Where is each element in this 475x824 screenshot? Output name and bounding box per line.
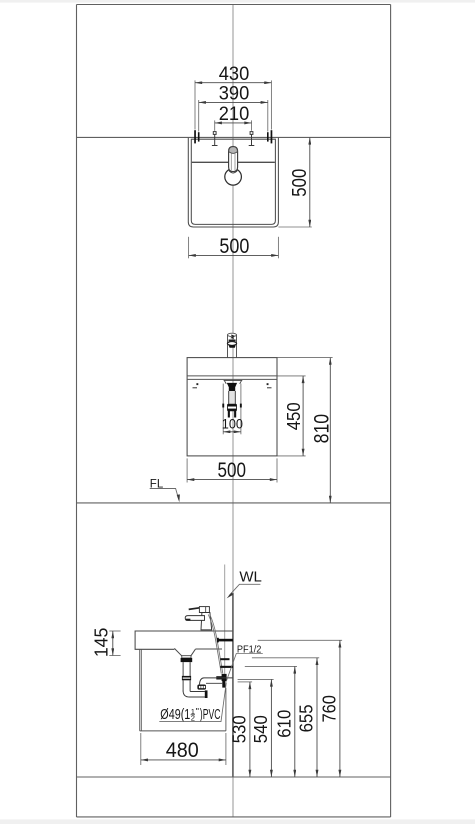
PF1/2 label underline leader [226, 654, 263, 682]
basin rim inner outline (plan) [191, 139, 275, 224]
supply pipe centerline (side) [224, 565, 226, 676]
faucet body (side) [201, 613, 212, 630]
dim 760 dimension line (side) [339, 640, 341, 777]
dim 530 extension line (side) [238, 681, 253, 683]
dim 810 extension line top (front) [278, 357, 333, 359]
faucet head top ellipse (front) [228, 333, 237, 336]
dim 500 extension lines (front bottom) [186, 458, 188, 482]
supply tick bar at 610 (side) [220, 666, 233, 668]
mounting bolt right (plan) [249, 132, 255, 146]
svg-text:WL: WL [239, 569, 262, 586]
drain flange collar (side) [182, 656, 191, 658]
faucet spout (side) [185, 616, 204, 621]
faucet head block (side) [199, 607, 209, 613]
supply tick bar at 655 (side) [220, 658, 229, 660]
bolt mark right dash (front) [267, 387, 272, 389]
svg-text:430: 430 [219, 64, 250, 85]
page bottom edge band [0, 819, 475, 824]
wall bracket tick left inner 390 (plan) [198, 132, 200, 141]
dim 610 extension line (side) [245, 665, 297, 667]
faucet head dark band (front) [229, 340, 236, 342]
dim 210 dimension line [215, 122, 252, 124]
svg-text:655: 655 [297, 704, 317, 732]
basin rim line 2 (front) [187, 378, 277, 380]
cabinet right edge (side) [225, 688, 227, 731]
page top edge band [0, 0, 475, 3]
svg-text:": " [196, 707, 199, 718]
angle valve body (side) [222, 674, 227, 681]
svg-text:530: 530 [230, 715, 250, 743]
frame bottom border [77, 816, 391, 818]
dim 100 extension lines (front) [222, 384, 224, 435]
dim 540 extension line (side) [238, 678, 274, 680]
outlet wall escutcheon (side) [222, 679, 225, 688]
trap elbow and lower horizontal pipe (side) [183, 691, 205, 697]
drain funnel black (front) [227, 383, 237, 387]
dim 500 dimension line (front bottom) [187, 479, 277, 481]
dim 810 dimension line (front) [329, 358, 331, 503]
FL leader arrowhead [177, 494, 180, 502]
wall line dark segment (side view) [232, 593, 234, 777]
svg-text:480: 480 [166, 739, 199, 762]
bowl underside neck (side) [174, 648, 195, 655]
pvc label underline leader [159, 683, 226, 722]
dim 100 dimension line (front) [223, 431, 241, 433]
svg-text:500: 500 [219, 235, 249, 258]
frame right border [390, 5, 392, 818]
dim 655 extension line (side) [252, 657, 319, 659]
faucet aerator (side) [186, 619, 191, 621]
dim 655 dimension line (side) [316, 658, 318, 777]
dim 145 dimension line (side) [112, 631, 114, 656]
svg-text:810: 810 [310, 414, 333, 444]
bolt mark left dot (front) [196, 383, 198, 385]
ribbed compression coupling (side) [197, 685, 206, 690]
wall bracket tick left outer 430 (plan) [194, 130, 196, 143]
dim 145 extension lines (side) [109, 630, 120, 632]
dim 100 tick marks on extensions (front) [222, 404, 224, 408]
countertop slab (side) [135, 631, 233, 649]
svg-text:500: 500 [218, 459, 247, 482]
bolt mark left dash (front) [193, 387, 198, 389]
trap tailpipe upper (side) [182, 662, 184, 676]
dim 430 extension lines [194, 80, 196, 129]
dim 390 extension lines [198, 100, 200, 132]
trap outlet end cap (side) [205, 690, 208, 698]
faucet spout tip arc over drain (plan) [229, 171, 237, 173]
faucet riser lines (front) [227, 334, 229, 357]
dim 480 extension lines (side) [140, 733, 142, 765]
drain flange black ring (side) [181, 658, 193, 662]
svg-text:540: 540 [251, 715, 271, 743]
svg-text:450: 450 [284, 402, 304, 430]
drain coupling nut (front) [228, 404, 237, 411]
dim 430 dimension line [195, 82, 271, 84]
flexible supply hose (side) [208, 615, 221, 674]
drain hole circle (plan) [225, 169, 242, 186]
svg-text:500: 500 [289, 169, 311, 197]
drain flange top line (front) [224, 379, 243, 381]
svg-text:210: 210 [219, 104, 250, 125]
wall bracket tick right outer 430 (plan) [271, 130, 273, 143]
trap coupling nut (side) [182, 676, 191, 680]
faucet lever handle (side) [189, 608, 200, 610]
angle valve handle (side) [216, 676, 222, 679]
frame divider wall line (plan view) [77, 136, 391, 138]
svg-text:100: 100 [222, 417, 244, 432]
basin outer outline (plan) [188, 138, 278, 227]
dim 540 dimension line (side) [270, 679, 272, 777]
svg-text:)PVC: )PVC [200, 706, 221, 723]
drain flange side slants (front) [224, 381, 241, 384]
dim 500 right extension (basin bottom extended) [278, 226, 311, 228]
PF1/2 wall supply stub (side) [218, 639, 233, 642]
cabinet front double line (side) [139, 649, 141, 731]
dim 500 bottom extension lines (plan) [188, 237, 190, 258]
WL leader line [229, 584, 260, 595]
faucet dome shading (plan) [229, 147, 238, 154]
dim 500 right dimension line (plan) [309, 137, 311, 227]
frame divider floor line (side view) [77, 776, 391, 778]
frame divider floor line (front view FL) [77, 502, 391, 504]
bowl back ledge line (plan) [192, 161, 275, 163]
basin rim line 1 (front) [187, 375, 277, 377]
basin box outline (front) [187, 358, 277, 456]
dim 450 dimension line (front) [302, 376, 304, 456]
dim 480 dimension line (side) [141, 759, 226, 761]
frame top border [77, 4, 391, 6]
dim 450 extension lines (front) [278, 375, 306, 377]
faucet dark base trapezoid (front) [229, 345, 236, 347]
mounting bolt left (plan) [212, 132, 218, 146]
outlet pipe to wall (side) [200, 678, 233, 685]
dim 210 extension lines [214, 120, 216, 130]
dim 500 bottom dimension line (plan) [189, 254, 279, 256]
drain funnel stem black (front) [229, 387, 235, 391]
drain tail pipe (front) [229, 391, 235, 404]
svg-text:760: 760 [319, 695, 339, 723]
frame left border [76, 5, 78, 818]
bolt mark right dot (front) [267, 383, 269, 385]
faucet inner highlight lines (plan) [230, 154, 232, 171]
FL leader line [150, 489, 179, 500]
trap tailpipe lower (side) [182, 680, 184, 691]
dim 530 dimension line (side) [249, 682, 251, 777]
drain tail ends (front) [228, 411, 230, 418]
svg-text:610: 610 [274, 710, 294, 738]
svg-text:145: 145 [90, 628, 111, 658]
svg-text:390: 390 [219, 84, 250, 105]
faucet mid ellipse (front) [227, 342, 236, 346]
WL leader arrowhead [227, 593, 234, 599]
dim 390 dimension line [199, 101, 268, 103]
dim 610 dimension line (side) [294, 666, 296, 777]
dim 760 extension line (side) [258, 639, 342, 641]
cabinet bottom line (side) [140, 730, 226, 732]
wall bracket tick right inner 390 (plan) [267, 132, 269, 141]
center line (vertical axis) [232, 5, 234, 818]
svg-text:Ø49(1: Ø49(1 [160, 706, 190, 723]
faucet body capsule (plan) [229, 147, 238, 172]
